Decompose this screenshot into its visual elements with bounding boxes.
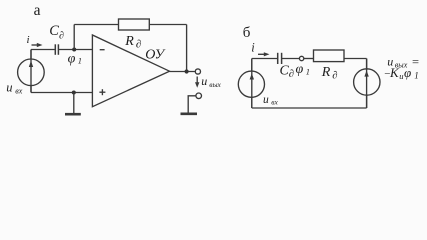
node φ1 junction dot (a) bbox=[72, 48, 76, 52]
wire right lead down (b) bbox=[366, 59, 368, 71]
wire source bottom lead (b) bbox=[251, 98, 253, 108]
wire dependent source bottom lead (b) bbox=[366, 96, 368, 109]
current arrow i (b) bbox=[258, 52, 270, 56]
label i (b) bbox=[251, 41, 255, 55]
svg-text:и: и bbox=[399, 71, 403, 81]
label u_вх bbox=[6, 81, 22, 96]
svg-text:u: u bbox=[201, 74, 207, 88]
label i (a) bbox=[27, 34, 30, 46]
label R_д (b) bbox=[321, 65, 338, 82]
node bottom junction dot (a) bbox=[72, 91, 76, 95]
svg-text:u: u bbox=[6, 81, 12, 95]
ground (bottom, a) bbox=[65, 113, 81, 116]
wire input to capacitor (a) bbox=[31, 49, 55, 51]
wire input to capacitor (b) bbox=[252, 58, 277, 60]
svg-text:C: C bbox=[49, 23, 59, 39]
label φ1 (a) bbox=[68, 51, 82, 66]
svg-text:а: а bbox=[34, 2, 41, 19]
svg-text:б: б bbox=[243, 25, 251, 41]
label C_д (b) bbox=[280, 64, 295, 81]
terminal output open circle (a) bbox=[195, 69, 200, 74]
wire source top lead (b) bbox=[251, 59, 253, 72]
wire node to resistor (b) bbox=[304, 58, 314, 60]
svg-text:1: 1 bbox=[306, 67, 310, 77]
label R_д (a) bbox=[124, 34, 141, 51]
svg-text:вх: вх bbox=[271, 97, 278, 106]
node output junction dot (a) bbox=[185, 69, 189, 73]
svg-text:вых: вых bbox=[209, 80, 221, 89]
svg-text:∂: ∂ bbox=[136, 39, 141, 51]
label u_вх (b) bbox=[263, 94, 279, 107]
wire capacitor to op-amp minus input (a) bbox=[59, 49, 93, 51]
wire source bottom lead (a) bbox=[30, 85, 32, 92]
wire bottom to op-amp plus input (a) bbox=[31, 92, 92, 94]
svg-text:u: u bbox=[263, 94, 269, 106]
resistor R_д feedback (a) bbox=[119, 19, 150, 30]
current arrow i (a) bbox=[32, 43, 43, 47]
svg-text:i: i bbox=[27, 34, 30, 46]
svg-text:φ: φ bbox=[68, 51, 76, 66]
terminal lower open circle (a) bbox=[196, 93, 202, 99]
wire op-amp output (a) bbox=[170, 71, 196, 73]
label u_вых (a) bbox=[201, 74, 221, 89]
label ОУ bbox=[145, 47, 165, 62]
capacitor C_д (b) bbox=[278, 53, 282, 64]
svg-text:R: R bbox=[124, 34, 134, 49]
ground stem (bottom, a) bbox=[73, 93, 75, 114]
svg-text:∂: ∂ bbox=[332, 71, 337, 82]
svg-text:i: i bbox=[251, 41, 255, 55]
wire feedback top left (a) bbox=[74, 24, 118, 26]
svg-text:R: R bbox=[321, 65, 331, 80]
op-amp plus input sign bbox=[99, 89, 105, 95]
dependent source -K_u φ1 (b) bbox=[354, 59, 380, 109]
op-amp ОУ triangle bbox=[92, 35, 169, 107]
wire source top lead (a) bbox=[30, 50, 32, 60]
wire bottom (b) bbox=[252, 107, 367, 109]
wire lower terminal to ground (a) bbox=[188, 96, 196, 113]
voltage source u_вх (circuit b) bbox=[238, 59, 264, 109]
label а (circuit a designator) bbox=[34, 2, 41, 19]
svg-text:∂: ∂ bbox=[289, 69, 294, 80]
ground (output, a) bbox=[181, 113, 198, 116]
wire feedback right vertical (a) bbox=[186, 25, 188, 72]
resistor R_д (b) bbox=[314, 50, 345, 62]
arrow u_вых (a) bbox=[195, 77, 199, 88]
capacitor C_д (a) bbox=[55, 44, 58, 55]
wire capacitor to node (b) bbox=[282, 58, 300, 60]
wire feedback left vertical (a) bbox=[73, 25, 75, 50]
svg-text:1: 1 bbox=[78, 56, 82, 66]
svg-text:∂: ∂ bbox=[59, 30, 64, 41]
voltage source u_вх (circuit a) bbox=[18, 50, 45, 93]
node φ1 open circle (b) bbox=[299, 56, 303, 60]
label C_д (a) bbox=[49, 23, 64, 41]
svg-text:φ: φ bbox=[404, 65, 411, 80]
svg-text:φ: φ bbox=[296, 62, 304, 77]
svg-text:вх: вх bbox=[15, 87, 22, 96]
op-amp minus input sign bbox=[100, 49, 105, 51]
wire feedback top right (a) bbox=[149, 24, 186, 26]
label б (circuit b designator) bbox=[243, 25, 251, 41]
label φ1 (b) bbox=[296, 62, 311, 77]
svg-text:1: 1 bbox=[414, 71, 419, 81]
label u_вых = -K_u φ1 bbox=[384, 54, 419, 81]
svg-text:=: = bbox=[412, 55, 419, 69]
svg-text:ОУ: ОУ bbox=[145, 47, 165, 62]
wire resistor to right corner (b) bbox=[344, 58, 367, 60]
